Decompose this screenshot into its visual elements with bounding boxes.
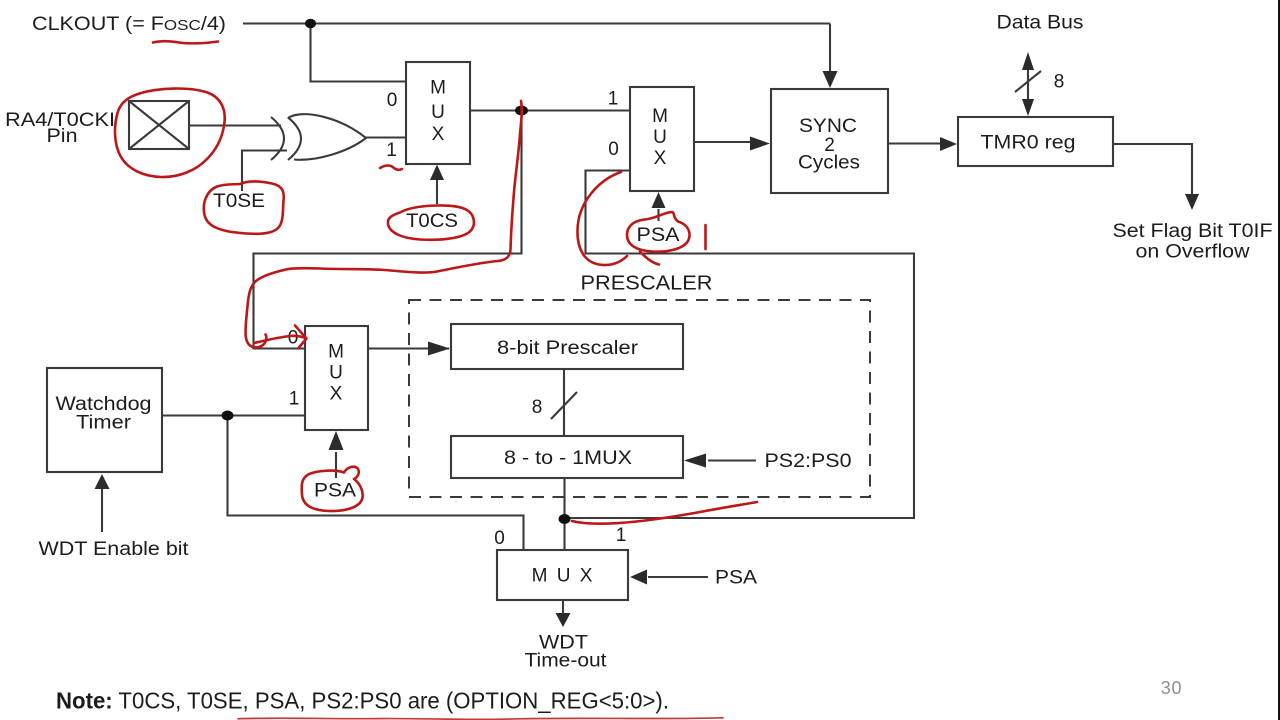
svg-text:8: 8 (532, 397, 543, 418)
svg-text:M: M (652, 106, 668, 127)
svg-text:Cycles: Cycles (798, 153, 860, 174)
svg-text:Timer: Timer (76, 413, 132, 434)
svg-text:M U X: M U X (532, 566, 595, 587)
svg-text:T0SE: T0SE (213, 191, 265, 212)
svg-text:8-bit Prescaler: 8-bit Prescaler (497, 338, 639, 359)
svg-text:8: 8 (1054, 72, 1065, 93)
svg-text:M: M (430, 78, 446, 99)
svg-text:X: X (330, 384, 343, 405)
svg-text:Pin: Pin (47, 126, 78, 147)
svg-text:U: U (431, 102, 445, 123)
svg-text:1: 1 (608, 89, 619, 110)
svg-text:0: 0 (608, 139, 619, 160)
svg-text:TMR0 reg: TMR0 reg (981, 133, 1076, 154)
svg-text:Data Bus: Data Bus (997, 13, 1084, 34)
svg-text:30: 30 (1161, 678, 1183, 698)
svg-text:Time-out: Time-out (525, 651, 608, 672)
svg-text:SYNC: SYNC (799, 116, 857, 137)
svg-text:Note: T0CS, T0SE, PSA, PS2:PS0: Note: T0CS, T0SE, PSA, PS2:PS0 are (OPTI… (56, 688, 669, 714)
svg-text:0: 0 (288, 328, 299, 349)
svg-text:T0CS: T0CS (406, 211, 458, 232)
svg-text:CLKOUT (= FOSC/4): CLKOUT (= FOSC/4) (32, 14, 226, 35)
svg-text:1: 1 (616, 525, 627, 546)
svg-text:PSA: PSA (715, 568, 757, 589)
svg-text:U: U (653, 127, 667, 148)
svg-text:8 - to - 1MUX: 8 - to - 1MUX (504, 448, 632, 469)
svg-text:M: M (328, 342, 344, 363)
svg-text:0: 0 (494, 528, 505, 549)
svg-text:PS2:PS0: PS2:PS0 (765, 451, 852, 472)
svg-text:WDT Enable bit: WDT Enable bit (39, 539, 190, 560)
svg-text:PSA: PSA (314, 481, 356, 502)
svg-text:0: 0 (387, 90, 398, 111)
svg-text:PSA: PSA (637, 225, 680, 246)
svg-text:Set Flag Bit T0IF: Set Flag Bit T0IF (1113, 221, 1273, 242)
svg-text:on Overflow: on Overflow (1136, 242, 1250, 263)
svg-text:X: X (654, 148, 667, 169)
svg-text:U: U (329, 363, 343, 384)
svg-text:1: 1 (386, 140, 397, 161)
svg-text:1: 1 (289, 389, 300, 410)
svg-text:PRESCALER: PRESCALER (581, 273, 713, 295)
svg-text:X: X (432, 124, 445, 145)
